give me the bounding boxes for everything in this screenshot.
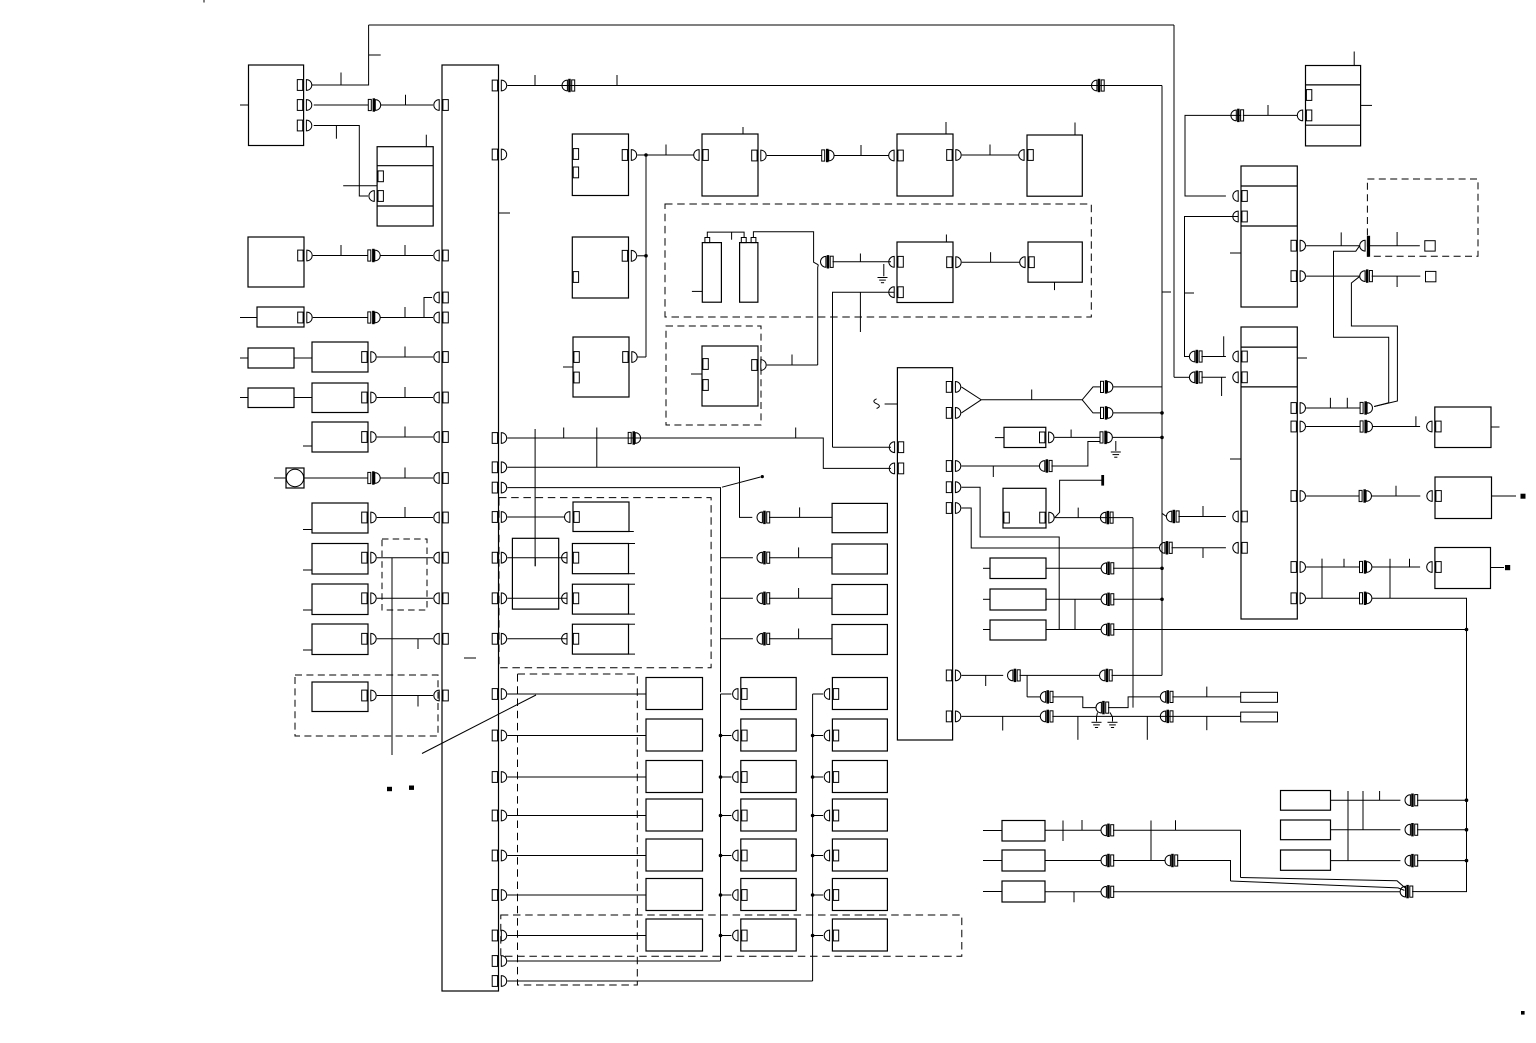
stub RC <box>983 629 990 631</box>
tick after K1 <box>405 95 407 105</box>
wire to B2 y216 <box>1185 217 1239 357</box>
wire 548 to B3 <box>1133 547 1160 549</box>
wire K23 to H3 <box>769 638 832 640</box>
dashed box terminals <box>1367 179 1478 256</box>
tick on x1184 <box>1185 292 1195 294</box>
block I3 <box>646 761 703 793</box>
connector K12 <box>1189 371 1202 383</box>
pin C3-l <box>898 150 903 161</box>
wire J branch 855 <box>721 855 732 857</box>
tick L3 wire <box>404 387 406 398</box>
dot right of R2 <box>1521 494 1525 498</box>
junction dot K 735 <box>811 734 815 738</box>
wire bar to terminal1 <box>1370 245 1420 247</box>
block H1 <box>832 544 887 574</box>
wire I-row 777 <box>507 776 646 778</box>
wire K35 corner <box>1052 697 1096 708</box>
connector K28 <box>1101 562 1114 574</box>
connector K32 <box>1160 542 1173 554</box>
pin K4 <box>824 810 839 821</box>
wire B2-r2 to conn <box>1306 275 1360 277</box>
tick L4 wire <box>404 427 406 438</box>
block C6 <box>1028 242 1082 282</box>
stub L3p <box>240 397 248 399</box>
wire B3 598 <box>1306 597 1359 599</box>
junction dot J 777 <box>719 775 723 779</box>
wire K17 to R3 <box>1372 566 1420 568</box>
link tick x1390 <box>1389 559 1391 599</box>
ground under block5 wire <box>878 278 888 283</box>
block H2 <box>832 585 887 615</box>
pin B2-r2 <box>1291 271 1305 282</box>
junction dot J 935 <box>719 934 723 938</box>
block L4 <box>312 422 368 452</box>
connector K22 <box>757 592 770 604</box>
block L2p <box>248 348 294 368</box>
tick after K2 <box>404 245 406 256</box>
tick above C2 <box>742 127 744 134</box>
bus pin y695 <box>434 690 448 701</box>
connector K9 <box>1166 510 1179 522</box>
ground hook right <box>1110 713 1113 722</box>
bare bus right pin y154 <box>492 149 506 160</box>
pin K5 <box>824 850 839 861</box>
H row 598 <box>721 597 753 599</box>
wire F1 to bus <box>377 557 433 559</box>
wire J branch 694 <box>721 693 732 695</box>
dashed box D2 <box>499 498 711 668</box>
connector K17 <box>1360 561 1372 573</box>
block J1 <box>741 678 796 710</box>
wire K12 to B3 <box>1201 376 1226 378</box>
dashed box around F4 <box>295 675 438 736</box>
pin F1 <box>362 552 376 563</box>
vertical x1162 down <box>1161 86 1163 676</box>
long wire y85 from bus <box>507 85 1162 87</box>
connector K29 <box>1101 593 1114 605</box>
tick above RLY1 <box>425 135 427 147</box>
block RC <box>990 620 1046 640</box>
pin R1 <box>1427 421 1441 432</box>
pin E-l <box>574 512 579 523</box>
connector K3 <box>368 311 380 323</box>
tick row245 a <box>1340 232 1342 245</box>
tick N3 <box>1073 892 1075 903</box>
wire K47 to vert <box>1417 860 1467 862</box>
junction dot 830 <box>1465 828 1469 832</box>
dashed box D4 <box>501 915 962 956</box>
junction dot 437 <box>1160 436 1164 440</box>
tick above TR <box>1353 52 1355 66</box>
wire B3 426 to conn <box>1306 426 1360 428</box>
connector K1 <box>368 99 380 111</box>
junction dot 860 <box>1465 859 1469 863</box>
tick above BLK5 <box>945 235 947 243</box>
connector K47 <box>1405 854 1418 866</box>
terminal BAT2-1 <box>741 238 746 243</box>
wire RA row <box>1046 567 1101 569</box>
vertical x646 linking rows <box>645 155 647 357</box>
block I4 <box>646 799 703 831</box>
bus pin y598 <box>434 593 448 604</box>
tick F4 wire <box>417 696 419 707</box>
H row 557 <box>721 557 753 559</box>
junction dot J 855 <box>719 854 723 858</box>
pin B3-r 426 <box>1291 421 1305 432</box>
pin B3-r 408 <box>1291 403 1305 414</box>
stub F2 <box>303 609 312 611</box>
wire K22 to H2 <box>769 597 832 599</box>
bus pin y85 right <box>492 80 506 91</box>
block R2 <box>1435 477 1492 519</box>
block B3 <box>1241 327 1297 619</box>
wire B1-2 to connector <box>314 104 369 106</box>
H row 638 <box>721 638 753 640</box>
ground stub K26 <box>1115 441 1117 451</box>
wire bus981 to K feed <box>507 980 812 982</box>
ground hook block5 <box>883 264 885 276</box>
tick A-row <box>665 145 667 156</box>
pin CB-r 716 <box>946 711 961 722</box>
stub F3 <box>303 649 312 651</box>
wire down to block D <box>817 265 820 365</box>
wire K15 to R1 <box>1373 426 1420 428</box>
T branch x1027 <box>1026 675 1028 697</box>
wire K41 <box>1113 860 1165 862</box>
connector K31 <box>1100 511 1113 523</box>
tick right of B3 <box>1297 357 1307 359</box>
connector K24 <box>1101 381 1113 393</box>
vertical x1133 <box>1132 518 1134 708</box>
junction dot J 735 <box>719 734 723 738</box>
battery BAT2 <box>740 243 758 303</box>
arc row245 <box>1360 240 1365 251</box>
pin R3 <box>1427 562 1442 573</box>
AC squiggle <box>874 399 880 409</box>
connector K43 <box>1101 886 1114 898</box>
wire K29 to x1162 <box>1113 598 1162 600</box>
block L3p <box>248 388 294 408</box>
block I7 <box>646 919 703 951</box>
connector K45 <box>1405 794 1418 806</box>
connector K26 <box>1100 431 1112 443</box>
pin A-l1 (bare) <box>573 149 578 160</box>
pin B2 y196 <box>1233 191 1248 202</box>
block F3 <box>312 624 368 655</box>
wire K13 to terminal2 <box>1372 275 1421 277</box>
wire L-pin row <box>1055 517 1133 519</box>
block P2 <box>1281 820 1331 840</box>
pin K3 <box>824 772 839 783</box>
wire bus517 to E <box>507 516 564 518</box>
connector K13 <box>1360 270 1373 282</box>
wire CB716 <box>961 715 1040 717</box>
tick after K9 <box>1202 506 1204 517</box>
pin Lb-r <box>1040 512 1055 523</box>
block L3 <box>312 383 368 413</box>
floating tick <box>464 657 476 659</box>
stub C left <box>563 366 573 368</box>
ground hook left <box>1097 713 1098 722</box>
wire K46 to vert <box>1417 829 1467 831</box>
wire J branch 777 <box>721 776 732 778</box>
wire B2-r1 to bar <box>1306 245 1360 247</box>
bus pin 935r <box>492 930 506 941</box>
pin BLK5-l1 <box>889 256 904 267</box>
junction dot 599 <box>1160 598 1164 602</box>
stub F1 <box>303 569 312 571</box>
pin F2 <box>362 593 376 604</box>
block F2 <box>312 584 368 615</box>
tick FB wire <box>1070 430 1072 438</box>
Z-wire inner <box>1351 277 1397 407</box>
wire RC row <box>1046 629 1101 631</box>
pin B2a <box>298 250 312 261</box>
branch up to bar terminal <box>1055 480 1102 517</box>
wire F4 to bus <box>377 695 433 697</box>
pin L3 <box>362 392 376 403</box>
connector K14 <box>1360 402 1372 414</box>
block Lb <box>1003 488 1046 528</box>
pin B3 y356 <box>1233 351 1248 362</box>
block H4 <box>832 503 887 532</box>
tick left of B2 <box>1230 252 1241 254</box>
connector K41 <box>1101 854 1114 866</box>
wire K26 to x1162 <box>1113 436 1162 438</box>
tick row276 <box>1396 276 1398 287</box>
bus pin y397 <box>434 392 448 403</box>
bus pin 777r <box>492 772 506 783</box>
block P3 <box>1281 850 1331 870</box>
block I1 <box>646 678 703 710</box>
pin K2 <box>824 730 839 741</box>
wire L5 to bus <box>377 517 433 519</box>
wire bus638 <box>507 638 567 640</box>
junction dot A-row <box>644 153 648 157</box>
bus pin y105 <box>434 100 448 111</box>
pin J2 <box>733 730 748 741</box>
block K6 <box>832 879 887 911</box>
connector K5 <box>822 149 834 161</box>
junction dot K 815 <box>811 814 815 818</box>
tick on B2a wire <box>340 245 342 256</box>
wire J branch 815 <box>721 815 732 817</box>
junction dot K 895 <box>811 893 815 897</box>
tick after K10 <box>1267 105 1269 115</box>
fuse block FB <box>1004 427 1046 447</box>
wire K branch 895 <box>813 894 824 896</box>
connector K19 <box>628 432 640 444</box>
hanging tick x860 <box>859 292 861 332</box>
wire K16 to R2 <box>1372 495 1421 497</box>
tick on vertical x368 <box>369 54 381 56</box>
wire D to battery feed <box>767 364 818 366</box>
block BLK5 <box>897 242 953 303</box>
pin FB <box>1040 432 1054 443</box>
block I5 <box>646 839 703 871</box>
long top wire y25 <box>369 24 1174 26</box>
block R1 <box>1435 407 1491 448</box>
pin CB-r 487 <box>946 482 961 493</box>
wire K38 to M2 <box>1052 715 1240 717</box>
wire K branch 855 <box>813 855 824 857</box>
connector K44 <box>1400 885 1413 897</box>
pin A-r <box>622 150 636 161</box>
wire K branch 735 <box>813 735 824 737</box>
block E <box>573 502 634 532</box>
wire F3 to bus <box>377 638 433 640</box>
socket C6 <box>1020 257 1025 268</box>
pin L4 <box>362 432 376 443</box>
K feed vertical <box>812 694 814 981</box>
block K2 <box>832 719 887 751</box>
tick on x1162 <box>1162 291 1171 293</box>
pin D-l2 (bare) <box>703 380 708 391</box>
block L2 <box>312 342 368 372</box>
bus pin y437 <box>434 432 448 443</box>
bus pin 557r <box>492 552 506 563</box>
wire L3 to bus <box>377 397 433 399</box>
connector K10 <box>1231 109 1244 121</box>
pin B3-r 496 <box>1291 491 1305 502</box>
central block CB <box>897 368 952 740</box>
Y merge low <box>961 400 981 413</box>
pin J6 <box>733 890 748 901</box>
block B1 (top-left control unit) <box>249 65 304 146</box>
junction dot K 855 <box>811 854 815 858</box>
tick L2 wire <box>404 347 406 358</box>
wire I-row 694 <box>507 693 646 695</box>
ground K26 <box>1111 452 1121 457</box>
wire C3 to C4 <box>962 154 1019 156</box>
block K7 <box>832 919 887 951</box>
connector K16 <box>1359 490 1371 502</box>
ground right <box>1108 722 1118 727</box>
connector K30 <box>1101 623 1114 635</box>
stub L5 <box>303 529 312 531</box>
connector K8 <box>1092 79 1105 91</box>
block K5 <box>832 839 887 871</box>
tick Y wire <box>1031 390 1033 400</box>
connector K33 <box>1008 669 1021 681</box>
wire K28 to x1162 <box>1113 567 1162 569</box>
stub L4 <box>303 445 312 447</box>
vertical from top wire down to row 377 <box>1173 25 1175 377</box>
Y split low <box>1082 400 1100 413</box>
block H3 <box>832 625 887 655</box>
long tick row356 <box>1223 336 1225 356</box>
dashed box around D <box>666 326 761 425</box>
vertical link x392 <box>391 558 393 755</box>
pin K6 <box>824 890 839 901</box>
wire bus487 corner <box>507 488 720 693</box>
dangle x1147 <box>1146 716 1148 739</box>
block J7 <box>741 919 796 951</box>
bus pin y517 <box>434 512 449 523</box>
stub into B1 left <box>240 104 249 106</box>
block N3 <box>1002 881 1045 902</box>
block I6 <box>646 879 703 911</box>
bus pin 638r <box>492 633 506 644</box>
sensor square with circle <box>286 468 304 488</box>
wire K6 to block5 <box>833 261 892 263</box>
tick C3-C4 <box>989 145 991 156</box>
wire K18 right <box>1372 598 1466 891</box>
block J4 <box>741 799 796 831</box>
wire K branch 815 <box>813 815 824 817</box>
relay RLY1 <box>377 147 433 226</box>
socket G2c <box>562 633 567 644</box>
connector K46 <box>1405 824 1418 836</box>
wire K37 to M1 <box>1172 696 1240 698</box>
wire K44 to corner <box>1412 891 1417 893</box>
block F4 <box>312 682 368 712</box>
wire CB487 wrap <box>961 487 1059 629</box>
wire RB row <box>1046 598 1101 600</box>
stub N1 <box>983 830 1002 832</box>
wire K branch 935 <box>813 935 824 937</box>
wire J branch 935 <box>721 935 732 937</box>
pin Lb-l (bare) <box>1004 512 1009 523</box>
wire P1 row <box>1331 799 1401 801</box>
pin CB-l1 <box>889 442 904 453</box>
wire P2 row <box>1331 829 1401 831</box>
link x1348 <box>1347 791 1349 861</box>
bus pin 735r <box>492 730 506 741</box>
wire J branch 895 <box>721 894 732 896</box>
diag into K9 <box>1162 513 1166 516</box>
wire B3 496 to conn <box>1306 495 1359 497</box>
pin F4 <box>362 690 376 701</box>
tick after K21 <box>798 547 800 557</box>
tick 438 a <box>563 428 565 439</box>
link x1151 <box>1150 821 1152 861</box>
pin A-l2 (bare) <box>573 167 578 178</box>
wire K25 to x1162 <box>1113 412 1162 414</box>
long vertical x535 <box>534 429 536 566</box>
connector K4 <box>368 472 380 484</box>
connector K35 <box>1040 691 1053 703</box>
wire K40 corner <box>1113 830 1241 877</box>
tick 567 b <box>1409 559 1411 567</box>
pin J3 <box>733 772 748 783</box>
bar row245 <box>1367 236 1369 256</box>
wire BLK5 to C6 <box>962 261 1020 263</box>
Y merge <box>961 387 1100 400</box>
pin C-l2 (bare) <box>574 372 579 383</box>
junction dot 800 <box>1465 798 1469 802</box>
tick on wire B1-3 <box>335 126 337 139</box>
stub RA <box>983 567 990 569</box>
block TR <box>1306 66 1361 146</box>
stub AC <box>885 403 898 405</box>
tick N1 b <box>1175 820 1177 830</box>
wire K2 to bus <box>380 255 433 257</box>
block I2 <box>646 719 703 751</box>
block L1 <box>257 307 304 327</box>
dashed box D3 <box>518 674 638 985</box>
tick below C6 <box>1054 282 1056 290</box>
pin CB-r2 <box>946 408 961 419</box>
stub RB <box>983 598 990 600</box>
bus pin 981r <box>492 976 506 987</box>
battery BAT1 <box>702 243 721 303</box>
block L5 <box>312 503 368 533</box>
corner into C pin <box>638 356 646 358</box>
connector K20 <box>757 511 770 523</box>
wire bus467 <box>507 467 752 517</box>
socket C4 <box>1019 150 1024 161</box>
